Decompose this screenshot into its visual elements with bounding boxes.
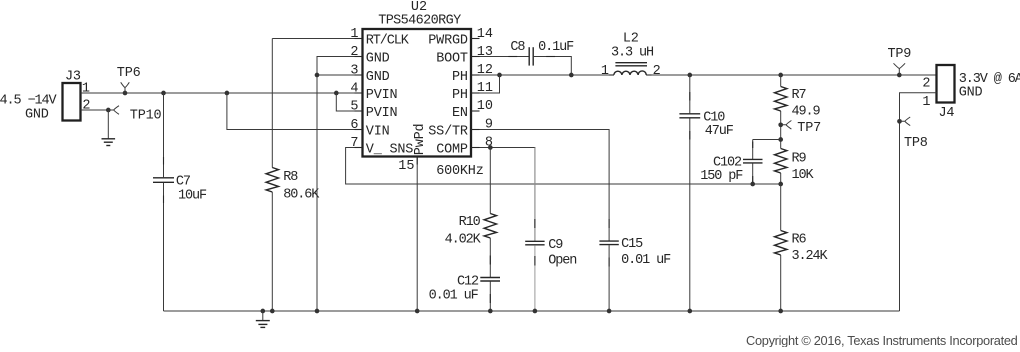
pin 8 COMP bbox=[436, 136, 493, 158]
svg-text:10K: 10K bbox=[792, 168, 815, 183]
svg-text:2: 2 bbox=[922, 77, 930, 92]
svg-text:J3: J3 bbox=[65, 70, 81, 85]
pin 10 EN bbox=[452, 99, 493, 121]
pin 1 RT/CLK bbox=[350, 27, 409, 49]
ground rail bbox=[164, 310, 900, 312]
svg-text:GND: GND bbox=[366, 52, 390, 67]
junction VIN tap bbox=[225, 91, 230, 96]
capacitor C102 bbox=[700, 140, 762, 185]
svg-text:4.5 −14V: 4.5 −14V bbox=[0, 94, 58, 109]
resistor R8 bbox=[266, 39, 320, 312]
svg-text:0.1uF: 0.1uF bbox=[538, 40, 574, 55]
junction C10 bottom bbox=[687, 309, 692, 314]
capacitor C8 bbox=[510, 40, 574, 66]
svg-text:PH: PH bbox=[452, 70, 468, 85]
wire C8 to PH node bbox=[534, 57, 572, 76]
svg-text:RT/CLK: RT/CLK bbox=[366, 34, 410, 49]
svg-text:C8: C8 bbox=[510, 40, 525, 55]
pin 12 PH bbox=[452, 63, 493, 85]
svg-text:Open: Open bbox=[548, 253, 576, 268]
junction C102 tap bbox=[778, 137, 783, 142]
junction ground symbol bbox=[260, 309, 265, 314]
svg-text:J4: J4 bbox=[939, 106, 955, 121]
svg-text:2: 2 bbox=[350, 45, 358, 60]
junction C8 drop bbox=[569, 73, 574, 78]
svg-text:600KHz: 600KHz bbox=[436, 164, 484, 179]
svg-text:GND: GND bbox=[25, 108, 49, 123]
test point TP8 bbox=[897, 117, 928, 151]
wire VIN pin6 tap bbox=[227, 93, 363, 130]
capacitor C9 (open) bbox=[525, 148, 576, 312]
pin 11 PH bbox=[452, 81, 493, 103]
svg-text:SS/TR: SS/TR bbox=[428, 125, 468, 140]
junction GND pins bottom bbox=[315, 309, 320, 314]
junction C15 bottom bbox=[607, 309, 612, 314]
svg-text:3.24K: 3.24K bbox=[792, 249, 829, 264]
wire L2 to J4 bbox=[646, 74, 935, 76]
junction C9 bottom bbox=[533, 309, 538, 314]
wire RT/CLK to R8 bbox=[272, 38, 362, 40]
op-amp U2 body bbox=[363, 0, 472, 156]
svg-text:80.6K: 80.6K bbox=[283, 187, 320, 202]
pin 3 GND bbox=[350, 64, 389, 86]
svg-text:4.02K: 4.02K bbox=[445, 233, 482, 248]
svg-text:R10: R10 bbox=[459, 215, 481, 230]
svg-text:11: 11 bbox=[477, 81, 493, 96]
wire J3 pin2 bbox=[81, 109, 109, 111]
svg-text:0.01 uF: 0.01 uF bbox=[429, 288, 479, 303]
junction R10 bottom bbox=[488, 309, 493, 314]
capacitor C12 bbox=[429, 275, 500, 311]
svg-text:9: 9 bbox=[485, 118, 493, 133]
inductor L2 bbox=[601, 32, 661, 80]
pin 13 BOOT bbox=[436, 45, 493, 67]
test point TP10 bbox=[106, 106, 162, 124]
svg-text:GND: GND bbox=[366, 70, 390, 85]
svg-text:COMP: COMP bbox=[436, 143, 468, 158]
svg-text:12: 12 bbox=[477, 63, 493, 78]
pin 14 PWRGD bbox=[428, 27, 493, 49]
test point TP6 bbox=[117, 66, 141, 95]
resistor R9 bbox=[775, 149, 815, 185]
wire COMP bbox=[471, 148, 535, 241]
junction PVIN tap bbox=[334, 91, 339, 96]
wire BOOT to C8 bbox=[471, 56, 529, 58]
wire J3 pin1 to PVIN bbox=[81, 92, 363, 94]
connector J3 bbox=[63, 70, 91, 121]
junction COMP tap bbox=[488, 145, 493, 150]
svg-text:TP6: TP6 bbox=[117, 66, 141, 81]
svg-text:3.3 uH: 3.3 uH bbox=[611, 46, 654, 61]
capacitor lead stubs bbox=[164, 57, 753, 304]
wire PH pin12 bbox=[471, 74, 614, 76]
pin 5 PVIN bbox=[350, 100, 397, 122]
capacitor C7 bbox=[153, 93, 207, 311]
ground (J3) bbox=[102, 110, 116, 146]
wire SS/TR bbox=[471, 130, 609, 241]
svg-text:10: 10 bbox=[477, 99, 493, 114]
wire C102 branch bbox=[753, 139, 781, 141]
svg-text:V_ SNS: V_ SNS bbox=[366, 143, 414, 158]
svg-text:EN: EN bbox=[452, 106, 468, 121]
pin 4 PVIN bbox=[350, 82, 397, 104]
svg-text:PwPd: PwPd bbox=[413, 124, 428, 156]
svg-text:TP8: TP8 bbox=[904, 136, 928, 151]
svg-text:7: 7 bbox=[350, 136, 358, 151]
junction C102 bottom bbox=[750, 182, 755, 187]
svg-text:TPS54620RGY: TPS54620RGY bbox=[378, 14, 461, 29]
svg-text:49.9: 49.9 bbox=[792, 104, 821, 119]
resistor R7 bbox=[775, 75, 821, 149]
junction R6 bottom bbox=[778, 309, 783, 314]
svg-text:R8: R8 bbox=[283, 170, 298, 185]
svg-text:TP9: TP9 bbox=[888, 47, 912, 62]
junction PH pin12 bbox=[497, 73, 502, 78]
svg-text:PVIN: PVIN bbox=[366, 106, 398, 121]
svg-text:R6: R6 bbox=[792, 233, 807, 248]
capacitor C15 bbox=[599, 237, 671, 311]
pin 15 PwPd bbox=[398, 124, 428, 311]
svg-text:14: 14 bbox=[477, 27, 493, 42]
svg-text:R9: R9 bbox=[792, 152, 807, 167]
svg-text:Copyright © 2016, Texas Instru: Copyright © 2016, Texas Instruments Inco… bbox=[746, 333, 1018, 347]
wire PVIN pin5 tap bbox=[336, 93, 362, 111]
pin 7 V_SNS bbox=[350, 136, 413, 158]
svg-text:15: 15 bbox=[398, 159, 414, 174]
svg-text:2: 2 bbox=[653, 64, 661, 79]
svg-text:13: 13 bbox=[477, 45, 493, 60]
svg-text:C12: C12 bbox=[457, 275, 479, 290]
wire GND pin2 bbox=[317, 57, 363, 76]
wire GND pin3 / down to ground rail bbox=[315, 73, 363, 311]
resistor R10 bbox=[445, 148, 497, 278]
svg-text:5: 5 bbox=[350, 100, 358, 115]
svg-text:TP10: TP10 bbox=[130, 108, 162, 123]
ground (rail) bbox=[256, 311, 270, 327]
svg-text:TP7: TP7 bbox=[797, 121, 821, 136]
svg-text:C9: C9 bbox=[548, 238, 563, 253]
junction R8 bottom bbox=[270, 309, 275, 314]
wire J4 pin1 bbox=[900, 93, 937, 311]
svg-text:4: 4 bbox=[350, 82, 358, 97]
svg-text:47uF: 47uF bbox=[705, 124, 734, 139]
test point TP7 bbox=[778, 121, 821, 136]
svg-text:GND: GND bbox=[959, 86, 983, 101]
svg-text:3: 3 bbox=[350, 64, 358, 79]
connector J4 bbox=[922, 65, 954, 121]
svg-text:6: 6 bbox=[350, 118, 358, 133]
junction C7 tap bbox=[161, 91, 166, 96]
capacitor C10 bbox=[679, 75, 733, 311]
pin 9 SS/TR bbox=[428, 118, 493, 140]
svg-text:1: 1 bbox=[922, 95, 930, 110]
svg-text:150 pF: 150 pF bbox=[700, 169, 743, 184]
junction PwPd bottom bbox=[415, 309, 420, 314]
svg-text:C15: C15 bbox=[621, 237, 643, 252]
resistor R6 bbox=[775, 184, 829, 311]
svg-text:2: 2 bbox=[82, 99, 90, 114]
svg-text:R7: R7 bbox=[792, 88, 807, 103]
pin stubs U2 bbox=[355, 39, 480, 165]
pin 2 GND bbox=[350, 45, 389, 67]
wire V_SNS loop bbox=[346, 148, 781, 185]
junction R7 tap bbox=[778, 73, 783, 78]
svg-text:0.01 uF: 0.01 uF bbox=[621, 253, 671, 268]
junction C10 tap bbox=[687, 73, 692, 78]
svg-text:1: 1 bbox=[601, 64, 609, 79]
junction R9 bottom bbox=[778, 182, 783, 187]
svg-text:PH: PH bbox=[452, 88, 468, 103]
svg-text:L2: L2 bbox=[623, 32, 639, 47]
test point TP9 bbox=[888, 47, 912, 77]
svg-text:PWRGD: PWRGD bbox=[428, 34, 468, 49]
pin 6 VIN bbox=[350, 118, 389, 140]
svg-text:VIN: VIN bbox=[366, 125, 390, 140]
svg-text:BOOT: BOOT bbox=[436, 52, 468, 67]
svg-text:PVIN: PVIN bbox=[366, 88, 398, 103]
svg-text:1: 1 bbox=[82, 82, 90, 97]
svg-text:1: 1 bbox=[350, 27, 358, 42]
svg-text:10uF: 10uF bbox=[178, 188, 207, 203]
wire PH pin11 bbox=[471, 75, 500, 93]
